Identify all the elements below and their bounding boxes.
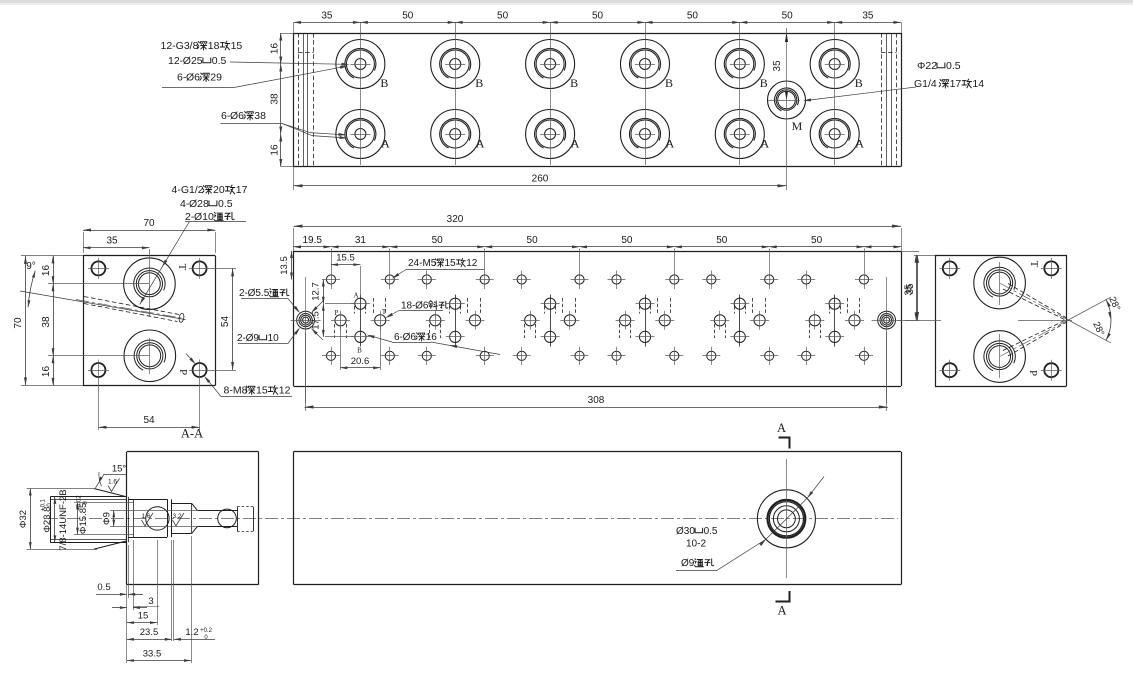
- dim chain left of top view (16/38/16): [270, 33, 294, 167]
- hidden pocket at right (section): [237, 507, 254, 532]
- leader to B1 counterbore: [230, 62, 350, 66]
- svg-text:A: A: [760, 137, 769, 151]
- svg-text:50: 50: [811, 235, 823, 246]
- left view flange outline: [83, 256, 216, 386]
- dim 15deg: [96, 464, 127, 488]
- centerline M column: [786, 28, 788, 190]
- svg-text:15: 15: [138, 611, 149, 622]
- svg-text:T: T: [382, 308, 387, 316]
- hole M5 bottom #6: [571, 347, 589, 365]
- svg-text:0.5: 0.5: [97, 582, 110, 593]
- svg-text:19.5: 19.5: [302, 235, 322, 246]
- svg-text:12-G3/8: 12-G3/8: [161, 40, 199, 52]
- corner hole M8 bottom-right (right view): [1041, 360, 1062, 381]
- port P (right view): [974, 331, 1026, 383]
- svg-text:Ø6: Ø6: [415, 301, 429, 312]
- bottom view block outline: [294, 452, 902, 585]
- hidden channel left edge (top view): [298, 33, 314, 167]
- svg-text:P: P: [335, 309, 339, 317]
- dim 13.5: [279, 251, 293, 280]
- hole M5 bottom #9: [702, 347, 720, 365]
- svg-text:260: 260: [532, 174, 549, 185]
- svg-text:35: 35: [905, 283, 916, 295]
- port B1 (G3/8): [336, 40, 385, 89]
- svg-text:P: P: [1027, 370, 1039, 376]
- dim 12.7: [311, 280, 355, 304]
- centerline column 6 (top view): [834, 22, 836, 165]
- svg-text:B: B: [380, 76, 388, 90]
- dim 54 bottom (left view): [98, 415, 199, 429]
- centerline column 4 (top view): [645, 22, 647, 165]
- svg-text:Ø28: Ø28: [189, 198, 209, 210]
- corner hole M8 bottom-left (right view): [939, 360, 960, 381]
- svg-text:50: 50: [497, 11, 509, 22]
- corner hole M8 top-right (right view): [1041, 258, 1062, 279]
- svg-text:35: 35: [321, 11, 333, 22]
- valve cavity profile (section): [50, 489, 237, 550]
- svg-text:16: 16: [41, 366, 52, 378]
- svg-text:Ø6: Ø6: [403, 332, 417, 343]
- hole M5 bottom #3: [418, 347, 436, 365]
- dim dia23.8: [41, 497, 57, 543]
- svg-text:308: 308: [588, 395, 605, 406]
- svg-text:17.5: 17.5: [311, 311, 322, 330]
- edge port right (front view): [872, 277, 902, 403]
- hole M5 top #2: [381, 249, 399, 290]
- svg-text:B: B: [357, 347, 362, 355]
- svg-text:16: 16: [270, 144, 281, 156]
- right view flange outline: [935, 255, 1067, 387]
- svg-text:1.6: 1.6: [141, 513, 150, 520]
- svg-text:Ø6: Ø6: [186, 72, 200, 84]
- bottom port (dia30 cbore): [757, 459, 815, 578]
- svg-text:35: 35: [106, 236, 118, 247]
- hole M5 bottom #1: [322, 347, 340, 365]
- hole M5 bottom #10: [760, 347, 778, 365]
- centerline column 1 (top view): [360, 22, 362, 165]
- svg-text:50: 50: [432, 235, 444, 246]
- svg-text:12: 12: [466, 258, 478, 269]
- hole M5 top #6: [571, 249, 589, 290]
- surface finish 1.6 in bore: [141, 513, 153, 526]
- svg-text:B: B: [760, 76, 768, 90]
- cross hole circle 2 (section): [218, 509, 237, 528]
- svg-text:Ø6: Ø6: [230, 110, 244, 122]
- cross hole circle 1 (section): [146, 507, 169, 530]
- svg-text:B: B: [570, 76, 578, 90]
- svg-text:50: 50: [402, 11, 414, 22]
- hidden channel right edge (top view): [881, 33, 897, 167]
- surface finish 3.2 in bore: [172, 513, 184, 526]
- svg-text:31: 31: [355, 235, 367, 246]
- centerline column 2 (top view): [455, 22, 457, 165]
- dim dia9: [102, 510, 198, 526]
- svg-text:50: 50: [716, 235, 728, 246]
- section A-A square outline: [127, 452, 259, 585]
- front view block outline: [294, 251, 902, 387]
- svg-text:15: 15: [445, 258, 457, 269]
- svg-text:20.6: 20.6: [351, 356, 370, 367]
- port A5 (G3/8): [715, 110, 764, 159]
- svg-text:12: 12: [279, 385, 291, 397]
- valve station 4 ports: [616, 295, 675, 347]
- corner hole M8 bottom-right (left view): [189, 360, 236, 431]
- dim 54 right (left view): [220, 268, 234, 370]
- svg-text:T: T: [176, 264, 188, 271]
- svg-text:12-: 12-: [168, 55, 184, 67]
- svg-text:+0.1: +0.1: [41, 498, 47, 511]
- svg-text:50: 50: [687, 11, 699, 22]
- port B5 (G3/8): [715, 40, 764, 89]
- leader 6-dia6 deep16: [366, 333, 500, 354]
- section mark A top: [777, 421, 790, 449]
- svg-text:Ø30: Ø30: [676, 526, 695, 537]
- dim 35 (right view): [905, 255, 935, 320]
- hole M5 top #4: [476, 249, 494, 290]
- hole M5 top #8: [665, 249, 683, 290]
- svg-text:0.5: 0.5: [704, 526, 718, 537]
- dim chain top (35/50x5/35): [294, 11, 902, 34]
- dim 308: [305, 332, 888, 411]
- dim 28deg upper: [1104, 295, 1122, 320]
- svg-text:33.5: 33.5: [143, 649, 162, 660]
- svg-text:9°: 9°: [26, 261, 36, 272]
- svg-text:Ø5.5: Ø5.5: [248, 288, 270, 299]
- svg-text:320: 320: [447, 214, 464, 225]
- svg-text:10: 10: [268, 333, 280, 344]
- svg-text:38: 38: [254, 110, 266, 122]
- dim 35 (M port from top edge): [772, 33, 788, 100]
- svg-text:18-: 18-: [401, 301, 415, 312]
- port B3 (G3/8): [526, 40, 575, 89]
- svg-text:Φ9: Φ9: [102, 512, 113, 525]
- corner hole M8 top-left (right view): [939, 258, 960, 279]
- svg-text:1.2: 1.2: [185, 627, 198, 638]
- port B4 (G3/8): [621, 40, 670, 89]
- dim 3: [112, 596, 159, 609]
- leader to M port: [803, 87, 916, 102]
- svg-text:P: P: [177, 369, 189, 375]
- leader to A1 ring: [283, 124, 348, 140]
- svg-text:Ø10: Ø10: [194, 211, 214, 223]
- centerline T column (left view): [149, 249, 151, 316]
- svg-text:2-: 2-: [239, 288, 248, 299]
- top edge shading: [0, 0, 1133, 3]
- centerline T (right view): [999, 262, 1001, 305]
- hole M5 bottom #12: [855, 347, 873, 365]
- svg-text:54: 54: [220, 316, 231, 328]
- port A3 (G3/8): [526, 110, 575, 159]
- dim 70 top (left view): [83, 218, 216, 253]
- svg-text:17: 17: [236, 184, 248, 196]
- valve station 3 ports: [521, 295, 580, 347]
- dim 9deg: [26, 261, 36, 307]
- svg-text:50: 50: [782, 11, 794, 22]
- svg-text:7/8-14UNF-2B: 7/8-14UNF-2B: [58, 489, 69, 550]
- svg-text:A: A: [777, 604, 786, 618]
- svg-text:A: A: [855, 137, 864, 151]
- svg-text:2-: 2-: [237, 333, 246, 344]
- svg-text:6-: 6-: [394, 332, 403, 343]
- svg-text:3: 3: [148, 596, 153, 607]
- surface finish 1.6 on chamfer: [108, 479, 120, 492]
- svg-text:15°: 15°: [112, 464, 127, 475]
- dim chain 16/38/16 (left view): [41, 256, 149, 386]
- hole M5 top #5: [513, 271, 531, 290]
- port P (left view G1/2): [124, 330, 176, 382]
- leader 18-dia6: [384, 311, 443, 320]
- svg-text:A: A: [666, 137, 675, 151]
- leader 24-M5: [391, 270, 484, 280]
- svg-text:50: 50: [527, 235, 539, 246]
- inclined hole 9deg (left view): [20, 291, 186, 323]
- hole M5 bottom #5: [513, 347, 531, 365]
- port T (left view G1/2): [124, 258, 176, 310]
- centerline P column (left view): [149, 338, 151, 374]
- svg-text:24-M5: 24-M5: [408, 258, 437, 269]
- svg-text:1.6: 1.6: [108, 479, 117, 486]
- svg-text:70: 70: [13, 317, 24, 329]
- underline dia9 note: [676, 570, 718, 572]
- dim chain front top (19.5/31/50x5): [294, 235, 902, 248]
- svg-text:G1/4: G1/4: [914, 78, 937, 90]
- svg-text:14: 14: [972, 78, 984, 90]
- svg-text:50: 50: [592, 11, 604, 22]
- port T (right view): [974, 257, 1026, 309]
- centerline column 3 (top view): [550, 22, 552, 165]
- svg-text:38: 38: [270, 93, 281, 105]
- valve station 1 ports: [331, 295, 390, 347]
- leader 2-dia10: [138, 222, 246, 306]
- hole M5 bottom #2: [381, 347, 399, 365]
- svg-text:16: 16: [426, 332, 438, 343]
- svg-text:17: 17: [950, 78, 962, 90]
- svg-text:13.5: 13.5: [279, 256, 290, 275]
- svg-text:A: A: [777, 421, 786, 435]
- svg-text:15: 15: [256, 385, 268, 397]
- svg-text:23.5: 23.5: [140, 627, 159, 638]
- svg-text:0.5: 0.5: [946, 60, 961, 72]
- svg-text:0.5: 0.5: [218, 198, 233, 210]
- svg-text:15: 15: [231, 40, 243, 52]
- port A4 (G3/8): [621, 110, 670, 159]
- svg-text:A: A: [476, 137, 485, 151]
- leader underline for 6-dia6 deep38: [221, 123, 283, 125]
- svg-text:A: A: [571, 137, 580, 151]
- svg-text:0.5: 0.5: [212, 55, 227, 67]
- hole M5 top #9: [702, 271, 720, 290]
- leader underline for 6-dia6 deep29: [162, 87, 234, 89]
- svg-text:50: 50: [621, 235, 633, 246]
- valve station 2 ports: [426, 295, 485, 347]
- svg-text:Ø25: Ø25: [183, 55, 203, 67]
- port A2 (G3/8): [431, 110, 480, 159]
- dim 20.6: [340, 327, 380, 370]
- hole M5 bottom #4: [476, 347, 494, 365]
- dim 70 left overall: [13, 256, 83, 386]
- dim 28deg lower: [1090, 320, 1111, 341]
- hole M5 bottom #11: [797, 347, 815, 365]
- port A6 (G3/8): [810, 110, 859, 159]
- svg-text:A: A: [353, 292, 358, 300]
- hole M5 top #1: [322, 249, 340, 290]
- hole M5 bottom #8: [665, 347, 683, 365]
- svg-text:A-A: A-A: [181, 427, 203, 441]
- hole M5 top #11: [797, 271, 815, 290]
- svg-text:Φ32: Φ32: [18, 510, 29, 528]
- centerline P (right view): [999, 334, 1001, 378]
- dim dia15.85: [74, 495, 133, 535]
- svg-text:4-G1/2: 4-G1/2: [172, 184, 204, 196]
- dim 0.5: [96, 582, 143, 596]
- svg-text:Ø9: Ø9: [681, 558, 695, 569]
- section mark A bottom: [776, 591, 790, 618]
- svg-text:M: M: [792, 119, 803, 133]
- dim 35 top (left view): [83, 236, 149, 250]
- svg-text:A: A: [381, 137, 390, 151]
- svg-text:Ø9: Ø9: [246, 333, 260, 344]
- dim 320: [294, 214, 902, 251]
- svg-text:B: B: [855, 76, 863, 90]
- dim 1.2: [174, 627, 215, 641]
- centerline column 5 (top view): [739, 22, 741, 165]
- dim 23.5: [127, 627, 172, 641]
- svg-text:B: B: [475, 76, 483, 90]
- leader 8-M8: [186, 354, 292, 397]
- svg-text:10-2: 10-2: [686, 539, 706, 550]
- dim 15: [127, 611, 157, 625]
- port M (G1/4): [768, 81, 806, 119]
- svg-text:35: 35: [772, 60, 783, 72]
- valve station 5 ports: [710, 295, 769, 347]
- svg-text:15.5: 15.5: [336, 253, 355, 264]
- hole M5 top #12: [855, 249, 873, 290]
- svg-text:54: 54: [143, 415, 155, 426]
- top view block outline: [294, 33, 902, 167]
- dim 260: [294, 167, 787, 191]
- svg-text:38: 38: [41, 316, 52, 328]
- dim 35 right of front view: [898, 252, 919, 321]
- hole M5 top #3: [418, 271, 436, 290]
- hole M5 bottom #7: [608, 347, 626, 365]
- svg-text:B: B: [665, 76, 673, 90]
- edge port left (front view): [291, 277, 321, 403]
- svg-text:12.7: 12.7: [311, 282, 322, 301]
- dim 17.5: [311, 304, 355, 337]
- corner hole M8 top-left (left view): [88, 258, 109, 279]
- dim 33.5: [127, 649, 191, 662]
- extension lines cavity depth dims: [127, 536, 192, 663]
- dim 15.5: [331, 253, 361, 297]
- svg-text:Φ22: Φ22: [917, 60, 937, 72]
- leader to A1 center: [283, 124, 347, 137]
- svg-text:16: 16: [41, 265, 52, 277]
- svg-text:70: 70: [143, 218, 155, 229]
- svg-text:3.2: 3.2: [172, 513, 181, 520]
- dim dia32: [18, 489, 97, 550]
- hole M5 top #10: [760, 249, 778, 290]
- svg-text:35: 35: [862, 11, 874, 22]
- corner hole M8 bottom-left (left view): [88, 360, 109, 431]
- svg-text:16: 16: [270, 43, 281, 55]
- port B2 (G3/8): [431, 40, 480, 89]
- svg-text:8-M8: 8-M8: [224, 385, 248, 397]
- svg-text:20: 20: [213, 184, 225, 196]
- corner hole M8 top-right (left view): [189, 258, 236, 279]
- hole M5 top #7: [608, 271, 626, 290]
- leader to B1 center: [234, 64, 348, 87]
- svg-text:18: 18: [208, 40, 220, 52]
- main centerline (section axis): [45, 518, 898, 520]
- port B6 (G3/8): [810, 40, 859, 89]
- valve station 6 ports: [805, 295, 864, 347]
- port A1 (G3/8): [336, 110, 385, 159]
- svg-text:T: T: [1028, 261, 1040, 268]
- svg-text:29: 29: [210, 72, 222, 84]
- leader diagonal at bottom port: [718, 477, 824, 570]
- svg-text:+0.2: +0.2: [200, 628, 213, 634]
- hidden angled channels (right view): [905, 283, 1111, 357]
- leader arrows at left edge port: [238, 299, 324, 344]
